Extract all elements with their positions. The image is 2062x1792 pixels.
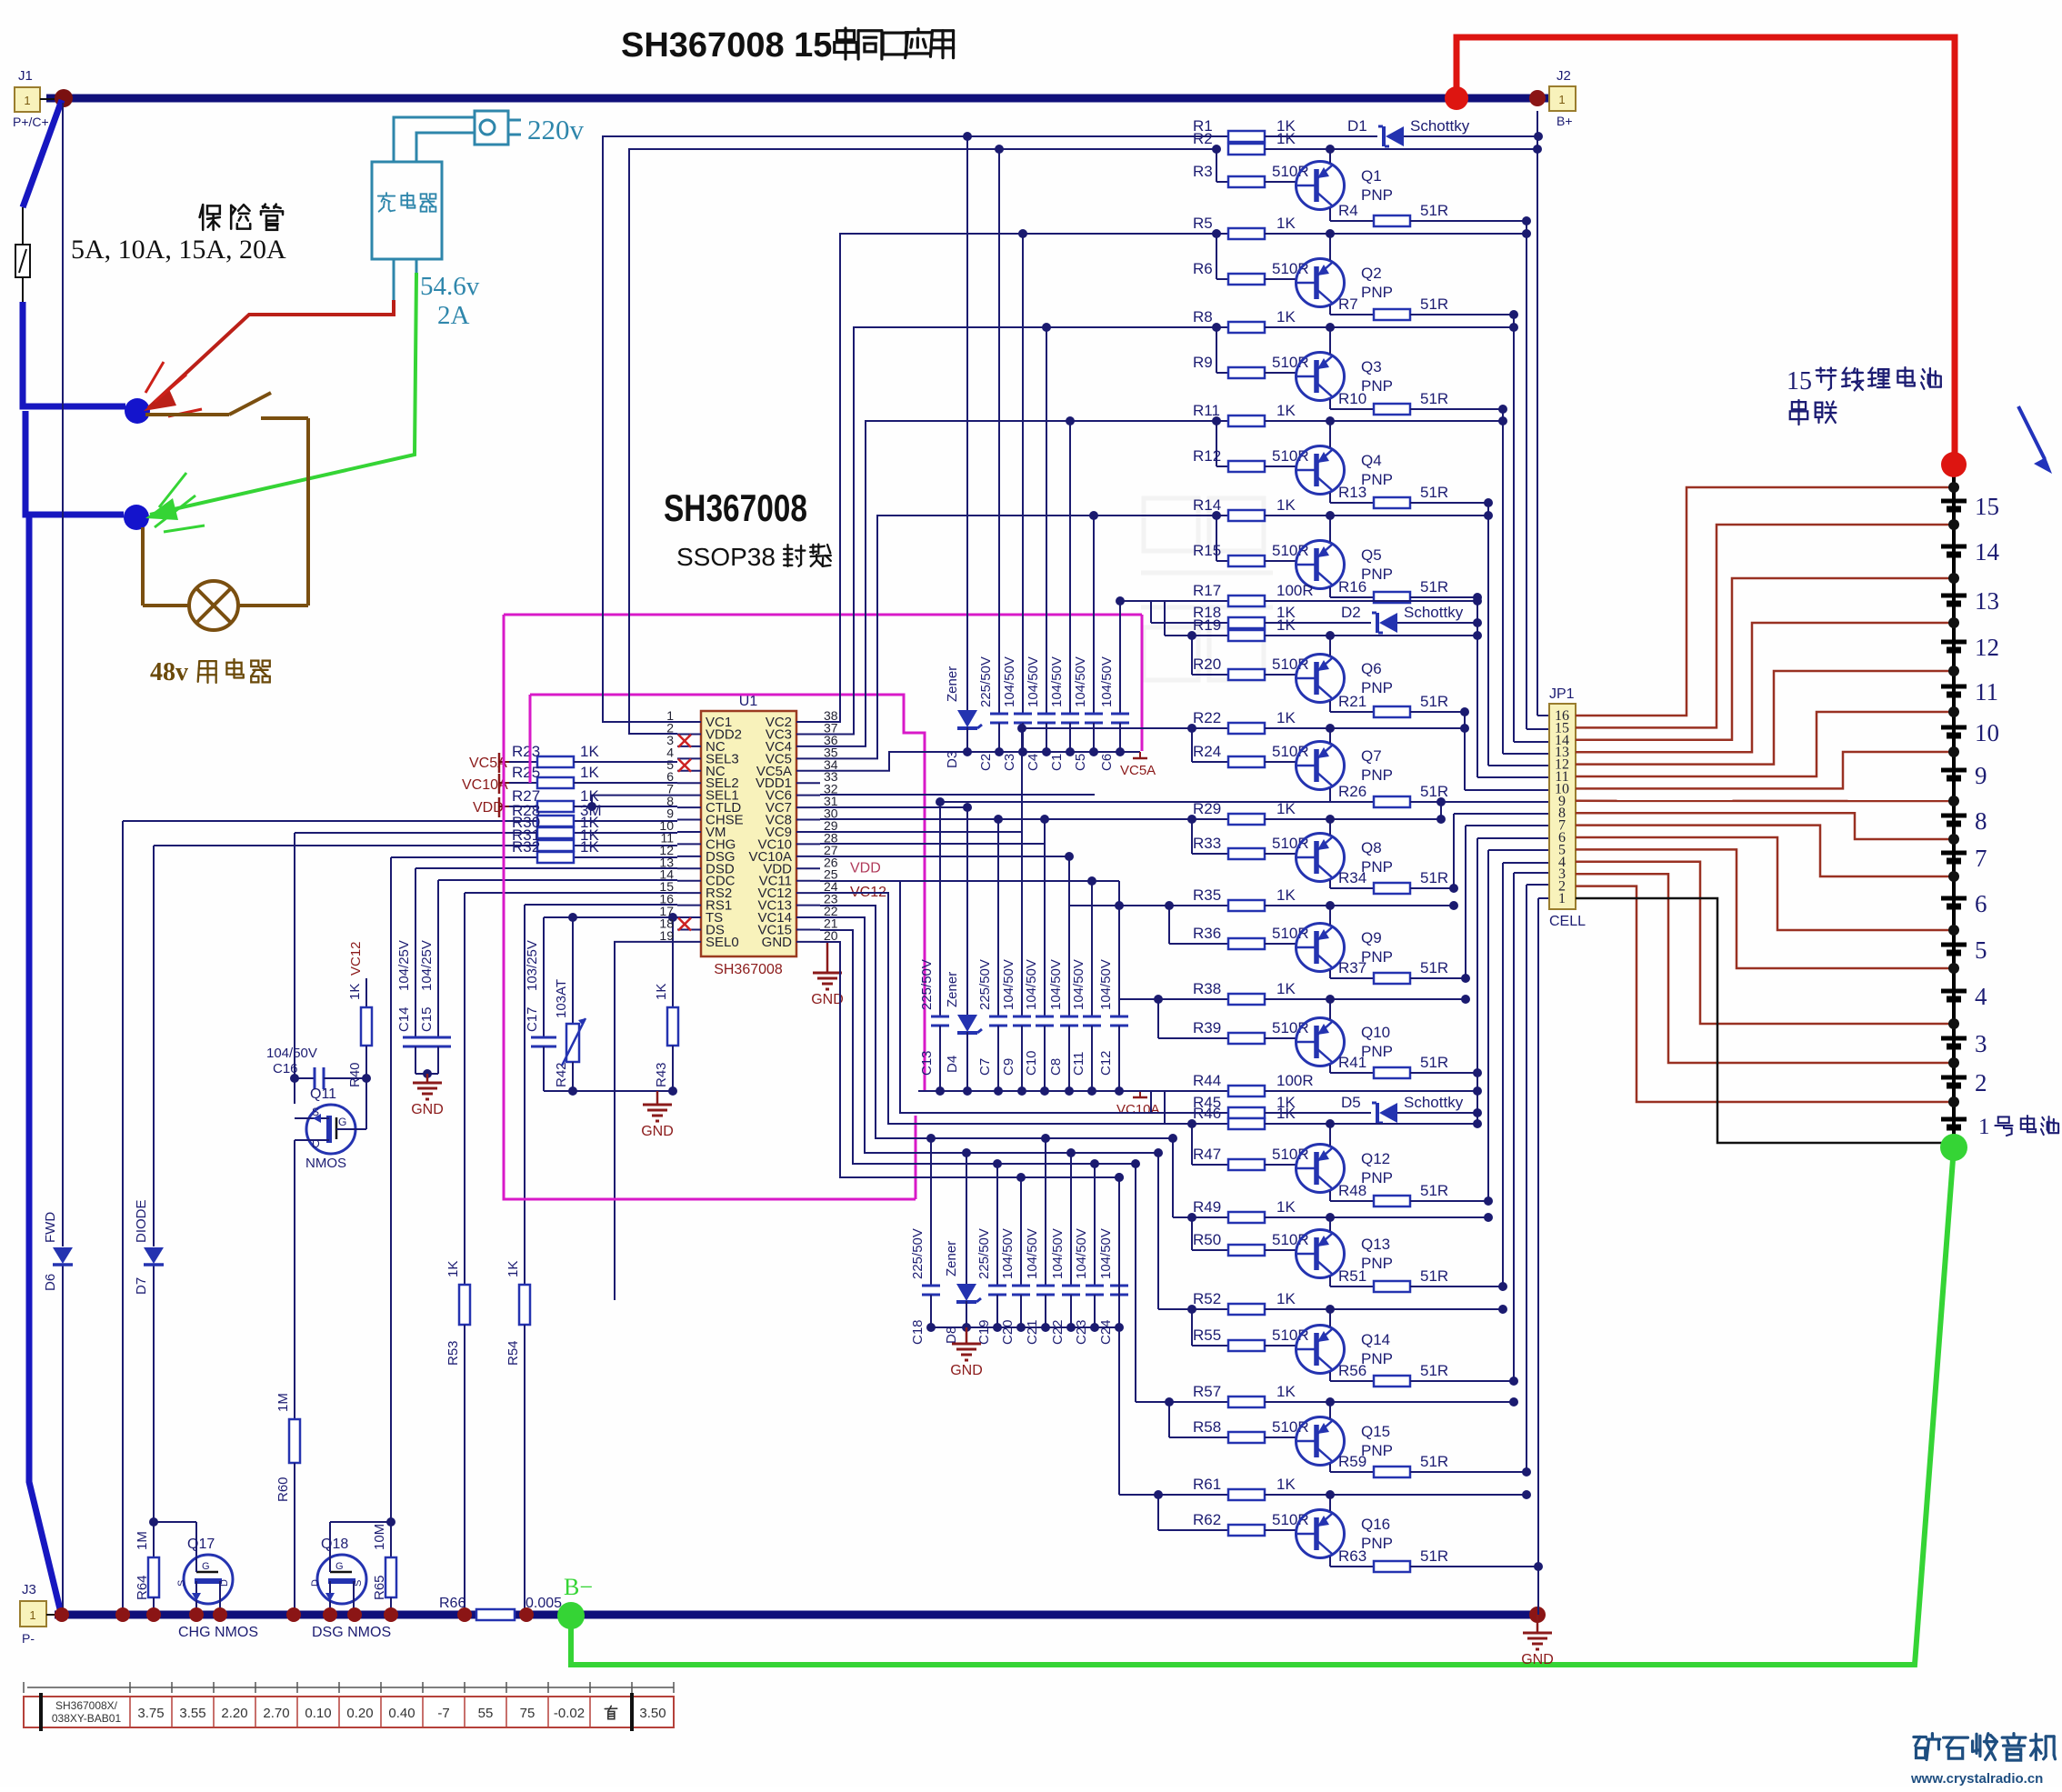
svg-text:51R: 51R [1420,484,1448,501]
thermistor R42 103AT [554,917,586,1091]
svg-text:Q12: Q12 [1361,1150,1390,1167]
resistor R59 51R [1330,1453,1531,1477]
resistor R53 1K vertical [445,1261,470,1615]
wire RS1 net column x577 [524,905,526,1285]
svg-text:R49: R49 [1193,1198,1221,1216]
resistor R1 1K [1193,117,1335,142]
svg-text:510R: 510R [1272,1326,1309,1344]
node B- green dot [557,1602,585,1629]
svg-text:1K: 1K [1276,1476,1296,1493]
no-connect marks pins 3 5 18 [678,735,691,747]
ground at U1 pin20 GND [820,941,827,943]
wire Q17 gate link [154,1521,196,1523]
battery cell 5 [1941,936,1987,964]
svg-text:Q9: Q9 [1361,929,1382,946]
wire Q16 output to JP1 [1537,898,1539,1567]
wire JP1 pin3 to battery node 3 [1576,874,1954,1063]
svg-text:Q15: Q15 [1361,1423,1390,1440]
wire RS2 net horizontal y982 [465,892,677,894]
svg-text:R64: R64 [135,1575,150,1600]
wire SEL0 pin19 down [615,942,677,1300]
svg-text:51R: 51R [1420,693,1448,710]
svg-text:104/50V: 104/50V [1098,959,1114,1010]
resistor R3 510R [1193,149,1309,187]
zener diode D8 on GND bus [944,1153,981,1344]
resistor R56 51R [1330,1362,1518,1387]
svg-text:S: S [353,1580,364,1587]
svg-text:R32: R32 [512,838,540,856]
svg-text:1K: 1K [1276,980,1296,997]
resistor R17 100R [1120,582,1482,606]
ground under R42 R43 [656,1091,659,1096]
wire RS2 net column x511 [464,893,465,1285]
svg-text:R4: R4 [1338,202,1358,219]
svg-text:R60: R60 [275,1477,291,1502]
svg-text:Q17: Q17 [187,1537,215,1552]
svg-text:510R: 510R [1272,1231,1309,1248]
battery cell 3 [1941,1030,1987,1057]
svg-text:CELL: CELL [1549,914,1586,929]
transistor Q12 PNP [1296,1124,1393,1201]
wire JP1 pin12 to battery node 12 [1576,671,1954,765]
node bottom bus junction dots [55,1607,69,1622]
svg-text:510R: 510R [1272,743,1309,760]
capacitor C8 104/50V [1048,856,1078,1091]
svg-text:C3: C3 [1002,754,1017,771]
svg-text:R9: R9 [1193,354,1213,371]
svg-text:R52: R52 [1193,1290,1221,1307]
resistor R14 1K [877,496,1493,521]
svg-text:C8: C8 [1048,1058,1064,1076]
resistor R60 1M vertical [275,1393,300,1615]
svg-text:10: 10 [1975,719,1999,746]
svg-text:R35: R35 [1193,886,1221,904]
svg-text:R23: R23 [512,743,540,760]
svg-text:225/50V: 225/50V [919,959,935,1010]
svg-text:5A, 10A, 15A, 20A: 5A, 10A, 15A, 20A [71,235,286,265]
wire Q1 output to JP1 pin15 [1526,221,1527,729]
svg-text:DIODE: DIODE [134,1199,149,1243]
resistor R33 510R [1187,815,1309,859]
label 48v用电器 [150,658,270,686]
wire VM2 net column x430 [390,857,392,1522]
svg-text:104/25V: 104/25V [419,940,435,991]
battery cell 1 [1941,1119,1967,1127]
svg-text:S: S [312,1106,319,1118]
wire Q4 output to JP1 [1487,503,1489,766]
diode D1 Schottky [1335,117,1543,146]
wire VM net column x69 (J1 to bottom bus) [62,103,64,1246]
ground under bank3 [966,1327,968,1335]
svg-text:1K: 1K [580,743,599,760]
svg-text:1K: 1K [1276,130,1296,147]
svg-text:54.6v: 54.6v [420,272,480,301]
wire VC4 to R11 row [820,421,1228,746]
svg-text:GND: GND [411,1102,444,1117]
svg-text:C4: C4 [1026,754,1041,771]
svg-text:R43: R43 [654,1062,669,1087]
battery cell 11 [1941,678,1998,706]
resistor R8 1K [854,308,1518,333]
wire Q8 output to JP1 [1453,814,1455,888]
arrow pointing to battery top [2018,406,2045,459]
wire VC5A bus under bank1 [967,751,1140,753]
svg-text:1K: 1K [1276,1290,1296,1307]
svg-text:C22: C22 [1050,1319,1066,1345]
svg-text:1K: 1K [1276,402,1296,419]
svg-text:Q14: Q14 [1361,1331,1390,1348]
wire fuse to node A (blue) [23,302,125,406]
transistor Q11 NMOS [295,1078,366,1171]
resistor R2 1K [1193,130,1542,155]
svg-text:R56: R56 [1338,1362,1366,1379]
svg-text:Q16: Q16 [1361,1516,1390,1533]
svg-text:SH367008X/: SH367008X/ [55,1699,118,1712]
wire charger to plug [394,117,475,162]
capacitor C12 104/50V [1098,906,1128,1091]
resistor R16 51R [1330,578,1482,603]
svg-text:D: D [219,1579,230,1587]
svg-text:51R: 51R [1420,1362,1448,1379]
resistor R22 1K [1022,709,1469,734]
wire VC9 row [820,831,1022,833]
node battery top red dot [1941,452,1967,477]
capacitor C6 104/50V [1099,601,1129,771]
wire JP1 pin7 to battery node 7 [1576,826,1954,876]
svg-text:VC10A: VC10A [462,777,508,793]
svg-text:D3: D3 [945,751,960,768]
svg-text:15: 15 [1975,493,1999,520]
capacitor C10 104/50V [1024,819,1054,1091]
svg-text:510R: 510R [1272,656,1309,673]
transistor Q1 PNP [1296,149,1393,221]
battery cell 2 [1941,1069,1987,1096]
resistor R46 1K [1165,1091,1482,1129]
resistor R7 51R [1330,295,1518,320]
resistor R49 1K [1173,1198,1493,1223]
IC U1 left pins [659,708,743,950]
svg-text:9: 9 [1975,762,1987,789]
svg-text:www.crystalradio.cn: www.crystalradio.cn [1910,1771,2043,1787]
node A blue dot [125,398,150,424]
svg-text:19: 19 [659,928,674,943]
wire left P- riser (blue) [29,517,60,1609]
svg-text:1K: 1K [1276,800,1296,817]
resistor R57 1K [1136,1383,1518,1407]
resistor R25 1K [509,764,677,788]
wire green B- to battery bottom [571,1147,1954,1665]
wire JP1 pin13 to battery node 13 [1576,623,1954,752]
transistor Q13 PNP [1296,1217,1393,1286]
svg-text:R51: R51 [1338,1267,1366,1285]
wire GND elbow to C24 row [820,942,1119,1177]
wire red charge path to node A [148,300,394,408]
wire node A to node B (blue) [25,411,124,515]
label 保险管 [200,205,220,230]
capacitor C16 104/50V [266,1046,366,1089]
svg-text:104/50V: 104/50V [266,1046,317,1061]
svg-text:R55: R55 [1193,1326,1221,1344]
svg-text:R50: R50 [1193,1231,1221,1248]
wire VM2 net horizontal y943 [391,856,677,858]
svg-text:6: 6 [1975,890,1987,917]
wire VC14 elbow down [820,917,1158,1153]
battery cell 12 [1941,634,1999,661]
resistor R13 51R [1330,484,1493,508]
resistor R66 0.005 sense [439,1596,562,1620]
svg-text:75: 75 [520,1706,536,1721]
resistor R30 1K [512,814,599,838]
connector JP1 CELL [1549,686,1586,929]
svg-text:15: 15 [1787,367,1812,395]
red charge wire top [1456,37,1955,465]
svg-text:2.70: 2.70 [263,1706,289,1721]
svg-text:R36: R36 [1193,925,1221,942]
svg-text:VDD: VDD [850,860,881,876]
svg-text:3.75: 3.75 [137,1706,164,1721]
wire Q7 output pin9 link [1440,802,1442,819]
wire VC10A bus under bank2 [918,1090,1140,1092]
svg-text:GND: GND [762,935,793,950]
capacitor C17 103/25V [525,917,556,1091]
svg-text:104/50V: 104/50V [1002,656,1017,707]
svg-text:B−: B− [564,1574,593,1600]
svg-text:0.20: 0.20 [346,1706,373,1721]
battery cell 14 [1941,538,2000,566]
svg-text:J3: J3 [22,1582,36,1597]
svg-text:1K: 1K [1276,215,1296,232]
svg-text:104/25V: 104/25V [396,940,412,991]
svg-text:3.55: 3.55 [179,1706,205,1721]
wire B+ vertical from J2 to JP1 pin16 [1536,111,1538,716]
svg-text:225/50V: 225/50V [910,1228,926,1279]
node J2 junction dot [1529,90,1546,106]
svg-text:1K: 1K [1276,1383,1296,1400]
wire JP1 pin10 to battery node 10 [1576,752,1954,788]
resistor R64 1M vertical [135,1522,159,1615]
svg-text:104/50V: 104/50V [1025,1228,1040,1279]
transistor Q9 PNP [1296,906,1393,978]
svg-text:D6: D6 [43,1274,58,1291]
svg-text:C23: C23 [1074,1319,1089,1345]
battery cell 8 [1941,807,1987,835]
svg-text:Schottky: Schottky [1410,117,1470,135]
plug 220v [475,111,508,145]
svg-text:R61: R61 [1193,1476,1221,1493]
wire JP1 pin9 to battery node 9 [1576,800,1954,803]
resistor R32 1K [512,838,599,863]
svg-text:R29: R29 [1193,800,1221,817]
svg-text:J2: J2 [1557,68,1571,84]
svg-text:11: 11 [1975,678,1998,706]
svg-text:C19: C19 [976,1319,992,1345]
resistor R18 1K [1151,601,1335,628]
svg-text:51R: 51R [1420,578,1448,596]
svg-text:R5: R5 [1193,215,1213,232]
svg-text:225/50V: 225/50V [976,1228,992,1279]
battery cell 7 [1941,845,1987,872]
svg-text:Q5: Q5 [1361,546,1382,564]
transistor Q6 PNP [1296,636,1393,712]
wire VC12 elbow to R46 row [820,893,1165,1124]
resistor R12 510R [1193,416,1309,472]
capacitor C4 104/50V [1026,327,1056,771]
svg-text:1K: 1K [580,764,599,781]
svg-text:PNP: PNP [1361,186,1393,204]
svg-text:R20: R20 [1193,656,1221,673]
wire charger output right (green lead start) [415,259,418,273]
battery cell 6 [1941,890,1987,917]
svg-text:SH367008: SH367008 [714,962,783,977]
resistor R19 1K [1165,601,1482,641]
svg-text:FWD: FWD [43,1212,58,1243]
resistor R51 51R [1330,1267,1507,1292]
wire JP1 pin11 to battery node 11 [1576,712,1954,776]
wire JP1 pin4 to battery node 4 [1576,862,1954,1024]
wire JP1 pin2 to battery node 2 [1576,886,1954,1102]
svg-text:R12: R12 [1193,447,1221,465]
svg-text:0.40: 0.40 [388,1706,415,1721]
svg-text:C20: C20 [1000,1319,1016,1345]
svg-text:D: D [312,1137,320,1150]
svg-text:R26: R26 [1338,783,1366,800]
svg-text:1M: 1M [135,1531,150,1550]
resistor R9 510R [1193,323,1309,378]
wire CHG net horizontal y930 [154,845,677,846]
svg-text:Q3: Q3 [1361,358,1382,375]
svg-text:C24: C24 [1098,1319,1114,1345]
svg-text:Zener: Zener [945,666,960,702]
wire top B+ bus [46,95,1549,103]
resistor R52 1K [1158,1290,1507,1315]
svg-text:CHG NMOS: CHG NMOS [178,1625,258,1640]
svg-text:14: 14 [1975,538,2000,566]
svg-text:Schottky: Schottky [1404,1094,1464,1111]
svg-text:1K: 1K [1276,496,1296,514]
capacitor C7 225/50V [977,819,1007,1091]
resistor R21 51R [1330,693,1469,717]
resistor R61 1K [1119,1476,1531,1500]
svg-text:Zener: Zener [944,1241,959,1276]
wire C14-C15 common to GND [415,1073,438,1075]
battery cell 13 [1941,587,1999,615]
svg-text:GND: GND [811,992,844,1007]
wire GND bus under bank3 [931,1326,1119,1328]
svg-text:510R: 510R [1272,1146,1309,1163]
node bank3 column top junctions [926,1134,936,1143]
wire Q14 output to JP1 [1513,873,1515,1381]
wire VC8 row to R29 [820,818,1095,820]
resistor R24 510R [1187,724,1309,767]
svg-text:Q10: Q10 [1361,1024,1390,1041]
svg-text:1K: 1K [1276,1105,1296,1122]
IC U1 SH367008 body [701,711,796,956]
svg-text:B+: B+ [1557,114,1573,128]
resistor R28 3M [512,802,602,826]
svg-text:R2: R2 [1193,130,1213,147]
wire JP1 pin15 to battery node 15 [1576,525,1954,727]
battery cell 9 [1941,762,1987,789]
svg-text:104/50V: 104/50V [1024,959,1039,1010]
svg-text:104/50V: 104/50V [1073,656,1088,707]
ground under C14 C15 [426,1074,429,1083]
transistor Q2 PNP [1296,234,1393,315]
wire Q6 output to JP1 pin10 [1464,712,1466,790]
wire JP1 pin8 to battery node 8 [1576,813,1954,839]
wire VC10A row [820,856,1069,857]
wire VC11 row [820,880,1119,882]
watermark 矿石收音机 crystalradio [1910,1734,2055,1787]
svg-text:Q2: Q2 [1361,265,1382,282]
svg-text:Q11: Q11 [310,1086,336,1102]
svg-text:51R: 51R [1420,390,1448,407]
resistor R35 1K [1069,886,1458,911]
wire Q13 output to JP1 [1502,863,1504,1286]
svg-text:104/50V: 104/50V [1049,656,1065,707]
svg-text:104/50V: 104/50V [1074,1228,1089,1279]
svg-text:G: G [202,1561,210,1572]
svg-text:104/50V: 104/50V [1098,1228,1114,1279]
connector JP1 pin numbers [1555,708,1569,906]
wire VC13 elbow down [820,906,1173,1138]
wire Q15 output to JP1 [1526,885,1527,1472]
svg-text:C11: C11 [1071,1052,1086,1076]
svg-text:1K: 1K [1276,616,1296,634]
resistor R31 1K [512,826,599,851]
zener diode D3 on VC5A bus [945,136,982,768]
svg-text:2.20: 2.20 [221,1706,247,1721]
svg-text:VC12: VC12 [348,941,364,976]
wire Q10 output to JP1 [1476,838,1478,1073]
transistor Q5 PNP [1296,516,1393,597]
fuse F1 body [22,207,24,245]
resistor R38 1K [1119,980,1470,1005]
svg-text:R37: R37 [1338,959,1366,976]
capacitor C18 225/50V [910,1138,940,1345]
svg-text:51R: 51R [1420,1547,1448,1565]
wire JP1 pin6 to battery node 6 [1576,837,1954,930]
svg-text:PNP: PNP [1361,766,1393,784]
resistor R6 510R [1193,229,1309,285]
svg-text:C10: C10 [1024,1050,1039,1076]
svg-text:R13: R13 [1338,484,1366,501]
svg-text:104/50V: 104/50V [1026,656,1041,707]
svg-text:C17: C17 [525,1006,540,1032]
svg-text:103AT: 103AT [554,979,569,1018]
svg-text:R17: R17 [1193,582,1221,599]
wire VDD2 to R2 row [629,149,1216,734]
svg-text:10M: 10M [372,1524,387,1550]
resistor R11 1K [866,402,1507,426]
wire VC6 row [820,794,1095,796]
svg-text:104/50V: 104/50V [1050,1228,1066,1279]
wire TS row y1009 [544,916,677,918]
svg-text:104/50V: 104/50V [1071,959,1086,1010]
svg-text:R63: R63 [1338,1547,1366,1565]
svg-text:SEL0: SEL0 [706,935,739,950]
svg-text:R48: R48 [1338,1182,1366,1199]
wire bottom B- bus [55,1611,1537,1619]
svg-text:GND: GND [1521,1652,1554,1667]
svg-text:C7: C7 [977,1058,993,1076]
svg-text:Schottky: Schottky [1404,604,1464,621]
resistor R10 51R [1330,390,1507,415]
svg-text:C13: C13 [919,1050,935,1076]
wire DSG net horizontal y916 [295,832,677,834]
svg-text:1K: 1K [1276,709,1296,726]
transistor Q14 PNP [1296,1309,1393,1381]
svg-text:R42: R42 [554,1062,569,1087]
